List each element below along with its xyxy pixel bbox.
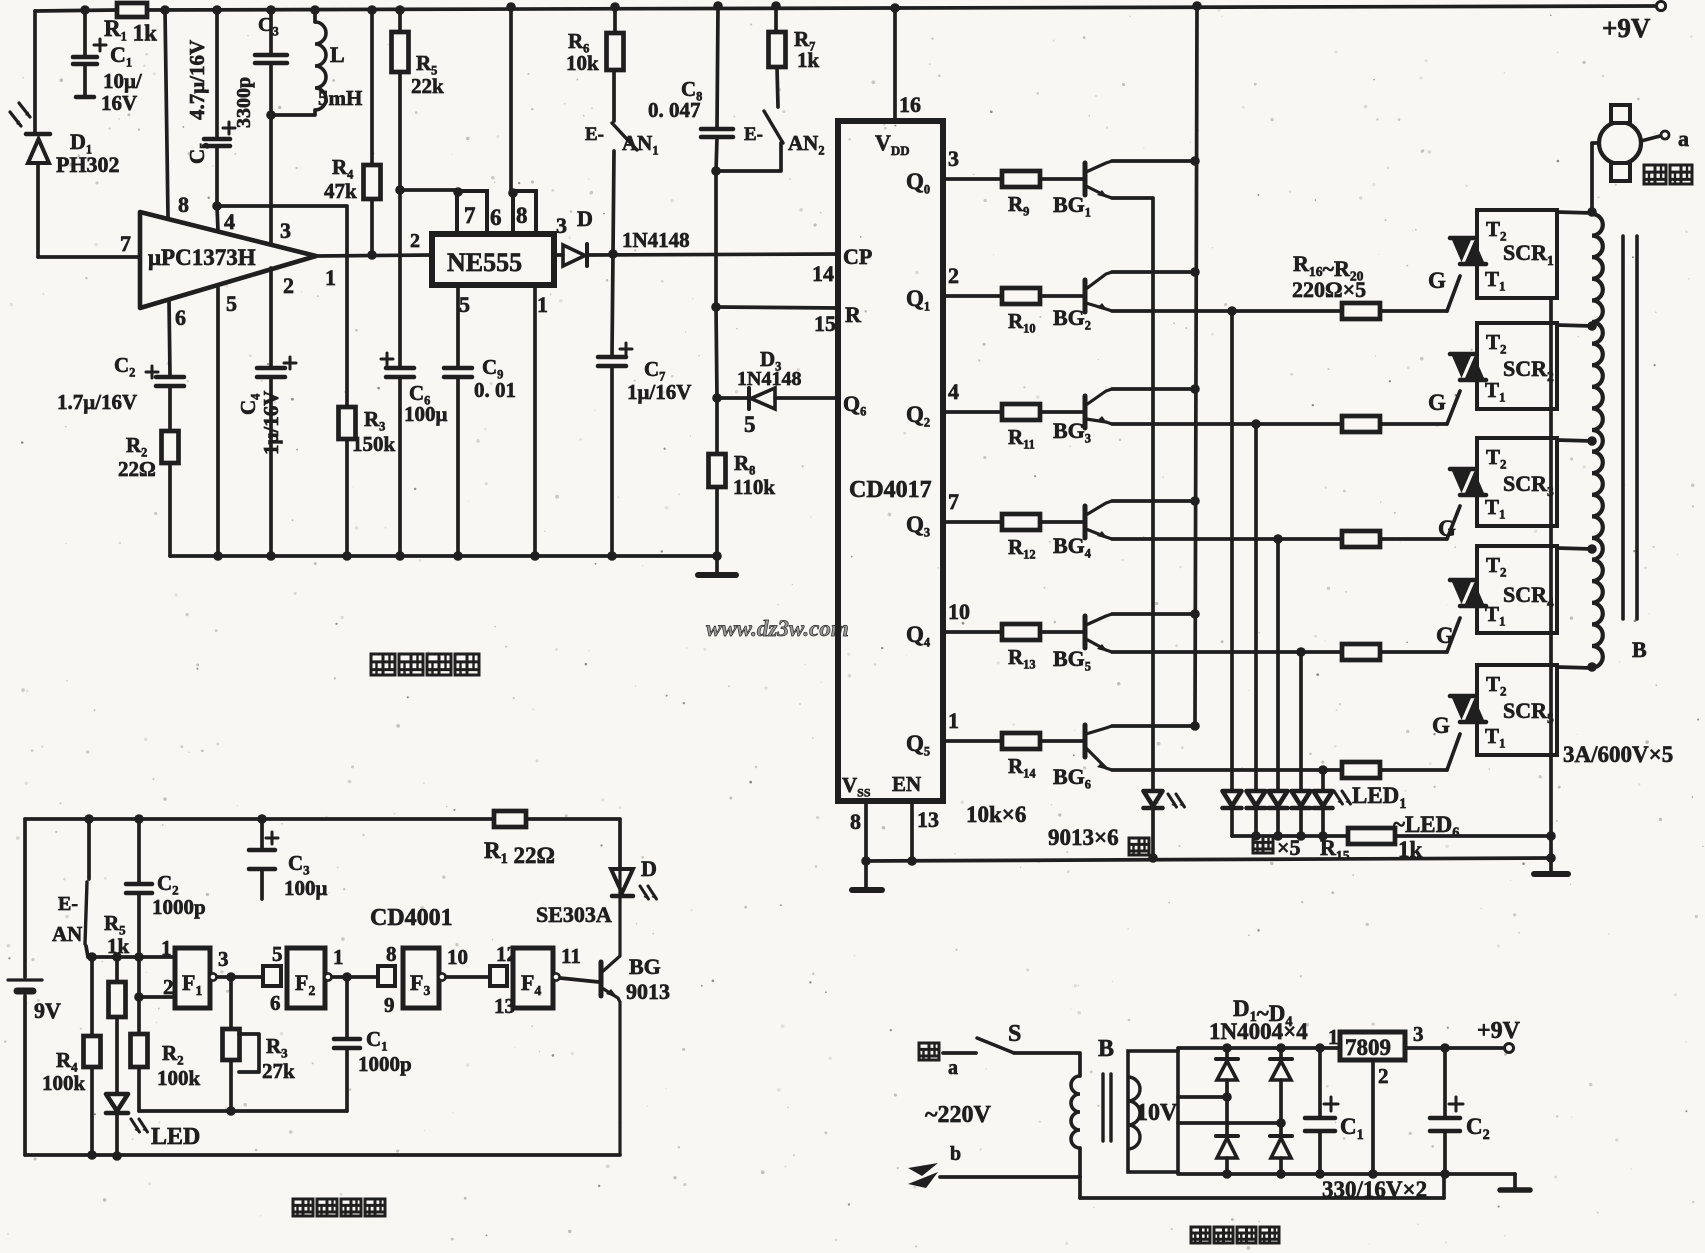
wire BG4 collector (1112, 499, 1195, 503)
label LED (tx) (151, 1124, 200, 1150)
resistor R4tx (100k) (84, 1036, 101, 1067)
inductor L (5mH) (271, 10, 326, 115)
label F3 (410, 970, 430, 998)
svg-text:2: 2 (1378, 1064, 1389, 1088)
wire tap SCR2 (1557, 325, 1592, 326)
svg-text:B: B (1632, 637, 1647, 662)
svg-text:15: 15 (814, 311, 836, 336)
svg-text:8: 8 (386, 942, 397, 966)
pin label 2 (7809) (1378, 1064, 1389, 1088)
svg-text:1k: 1k (1398, 837, 1423, 862)
resistor R17 (220ohm) (1342, 416, 1380, 432)
label G (SCR4) (1436, 623, 1454, 648)
led LED red 2 (1247, 791, 1266, 836)
wire CD4017 pin13 stub (910, 801, 914, 861)
junction LED drop 4 (1296, 647, 1306, 657)
junction tx bus C2 (134, 952, 144, 962)
svg-text:16: 16 (899, 92, 921, 117)
ground (receiver) (698, 556, 736, 575)
pin label 1 (7809) (1328, 1025, 1339, 1049)
label 1k (R15) (1398, 837, 1423, 862)
svg-text:G: G (1438, 516, 1456, 541)
photodiode D1 (26, 134, 50, 257)
svg-text:100μ: 100μ (284, 876, 328, 900)
pin label 6 (F2) (270, 991, 281, 1015)
svg-text:www.dz3w.com: www.dz3w.com (706, 616, 849, 641)
wire gate diagonal SCR4 (1447, 618, 1460, 652)
label 10k (566, 51, 599, 75)
label R8 (734, 451, 755, 477)
ground (logic) (852, 861, 882, 890)
wire primary to ground line (1078, 1177, 1082, 1198)
junction collector bus BG6 (1190, 721, 1200, 731)
svg-text:10: 10 (447, 945, 468, 969)
wire reset net down to D3 node (716, 307, 717, 398)
svg-text:7: 7 (120, 231, 131, 256)
junction R5-555 (395, 185, 405, 195)
svg-text:SCR1: SCR1 (1503, 240, 1554, 268)
wire gate diagonal SCR1 (1447, 276, 1460, 311)
capacitor C8 (0.047) (701, 129, 733, 137)
label F4 (521, 970, 541, 998)
junction rail-pin16 (890, 3, 900, 13)
rays green led (1168, 794, 1184, 807)
label 1N4148 (D) (622, 228, 690, 252)
pin label 8 (F3) (386, 942, 397, 966)
node +9V out terminal (1505, 1044, 1514, 1053)
label 10V (1136, 1100, 1178, 1126)
wire to NE555 pin7 (400, 188, 457, 192)
wire tx bus (88, 955, 175, 959)
wire T1 chain (1549, 298, 1553, 858)
label Q4 (906, 622, 930, 649)
junction R3-feedback (226, 1106, 236, 1116)
label C1 (110, 42, 132, 69)
label a (ps) (948, 1057, 958, 1079)
svg-text:100μ: 100μ (404, 402, 448, 426)
label T2 (SCR4) (1486, 553, 1507, 580)
wire live stub (943, 1051, 976, 1055)
ic U2 NE555 (432, 234, 554, 285)
pin label 8 (555) (516, 203, 528, 228)
wire BG2 collector (1112, 270, 1195, 274)
wire LED drop 1 (1230, 311, 1234, 791)
node fan terminal a (1661, 131, 1669, 139)
svg-text:E-: E- (744, 124, 763, 145)
wire Q2 to R11 (943, 410, 1002, 414)
junction C2 (ps) (1440, 1043, 1450, 1053)
pin label 6 (175, 305, 186, 330)
label Q5 (906, 731, 930, 758)
junction rail-collector bus (1192, 1, 1202, 11)
pin label 14 (812, 261, 834, 286)
label Q0 (906, 169, 930, 196)
svg-text:8: 8 (178, 192, 189, 217)
wire C1 branch (83, 10, 87, 95)
label 9013 x6 (1048, 825, 1119, 850)
junction winding taps (1587, 207, 1597, 672)
diode D1 (bridge) (1216, 1048, 1238, 1097)
wire b line (940, 1175, 1080, 1179)
wire F1 to F2 (217, 975, 263, 979)
label BG (tx) (629, 954, 661, 979)
label SCR5 (1503, 698, 1554, 726)
resistor R15 (1k) (1348, 828, 1395, 844)
pin label 15 (814, 311, 836, 336)
label +9V (1602, 13, 1651, 43)
label 100u (tx C3) (284, 876, 328, 900)
label C1 (ps) (1340, 1114, 1364, 1143)
junction D3 node (712, 393, 722, 403)
label 5mH (318, 86, 362, 110)
wire F4 to BG base (560, 978, 599, 982)
resistor R12 (10k) (1002, 514, 1040, 530)
label D (577, 206, 593, 231)
resistor R9 (10k) (1002, 171, 1040, 187)
wire Q1 to R10 (943, 294, 1002, 298)
svg-text:+9V: +9V (1477, 1018, 1521, 1044)
gate F4 input stub (490, 966, 507, 986)
svg-text:LED1: LED1 (1352, 783, 1406, 812)
wire left drop to D1 (33, 11, 37, 133)
scr SCR1 symbol (1450, 238, 1486, 264)
pin label 2 (283, 273, 294, 298)
junction R4 top (87, 952, 97, 962)
label R16~R20 (1293, 251, 1364, 284)
label R3 (364, 407, 385, 433)
junction tx bus R5 (112, 952, 122, 962)
junction C2-pin2 (134, 992, 144, 1002)
junction C2 rail (tx) (134, 814, 144, 824)
label D3 (760, 347, 781, 373)
wire BG6 collector (1112, 724, 1195, 728)
capacitor C1 (ps) (1305, 1048, 1335, 1174)
label Q1 (906, 286, 930, 313)
diode D3 (bridge) (1216, 1097, 1238, 1174)
svg-text:SE303A: SE303A (536, 902, 612, 927)
wire R5 (tx) line (115, 957, 119, 1094)
svg-text:×5: ×5 (1277, 835, 1301, 860)
junction bridge left tap (1222, 1092, 1232, 1102)
switch AN2 (744, 111, 825, 157)
label ceiling fan (diao shan) (1644, 165, 1692, 184)
wire C3/pin3 line (269, 10, 273, 244)
label C7 (644, 357, 665, 383)
gate F2 (287, 948, 325, 1008)
label C7 plus (620, 343, 632, 355)
wire LED drop 2 (1254, 424, 1258, 791)
svg-text:1N4148: 1N4148 (737, 368, 801, 390)
wire tap SCR5 (1557, 667, 1592, 668)
label T1 (SCR1) (1485, 267, 1506, 294)
label C9 (482, 355, 503, 381)
pin label 7 (555) (464, 203, 476, 228)
svg-text:7809: 7809 (1345, 1035, 1391, 1060)
led LED red 3 (1269, 791, 1288, 836)
wire R7 line from rail (776, 6, 778, 107)
capacitor C7 (1u/16V) (598, 357, 626, 366)
wire C2 (tx) line (137, 819, 141, 1111)
led LED (tx) (106, 1094, 128, 1156)
junction C1 top (tx) (342, 972, 352, 982)
resistor R6 (10k) (607, 33, 624, 70)
svg-text:LED: LED (151, 1124, 200, 1150)
pin label 4 (224, 209, 235, 234)
wire Q5 to R14 (943, 739, 1002, 743)
label R1 1k (104, 16, 157, 45)
diode D (1N4148) at 555 out (554, 244, 838, 266)
svg-text:5: 5 (272, 942, 283, 966)
svg-text:11: 11 (561, 944, 581, 968)
label Q2 (906, 402, 930, 429)
label R2 (tx) (162, 1041, 184, 1068)
label 1000p (tx C2) (152, 895, 206, 919)
label 1000p (tx C1) (358, 1052, 412, 1076)
label BG6 (1053, 764, 1091, 791)
svg-text:CD4001: CD4001 (370, 905, 453, 931)
wire reset net to pin15 (714, 171, 718, 307)
resistor R16 (220ohm) (1342, 303, 1380, 319)
resistor R1 (1k) in rail (117, 3, 147, 17)
wire Q3 to R12 (943, 520, 1002, 524)
scr SCR2 box (1477, 323, 1557, 409)
label VSS (842, 773, 871, 800)
pin label 3 (7809) (1413, 1022, 1424, 1046)
svg-text:9V: 9V (34, 998, 61, 1023)
junction R15-T1chain (1546, 831, 1556, 841)
junction 555 pin7 (453, 187, 463, 197)
label D (tx) (641, 856, 657, 881)
gate F3 out bubble (438, 973, 445, 980)
label S (1008, 1021, 1021, 1047)
label 10u/16V (101, 69, 143, 115)
svg-text:EN: EN (892, 772, 921, 796)
rays tx D (640, 886, 656, 899)
wire core lines B (1623, 236, 1637, 619)
svg-text:4: 4 (948, 379, 959, 404)
label R7 (794, 27, 815, 53)
wire bottom ground bus (866, 858, 1551, 861)
transistor Q BG3 (1085, 389, 1112, 428)
ic U3 CD4017 (838, 121, 943, 801)
svg-text:E-: E- (58, 893, 78, 915)
label C2 plus (146, 366, 158, 378)
junction reset-pin15 (711, 302, 721, 312)
label R11 (1008, 425, 1035, 451)
pin label 3 (280, 218, 291, 243)
capacitor C1 (10u/16V) (73, 57, 97, 97)
pin label 12 (F4) (496, 942, 517, 966)
led LED red 5 (1314, 791, 1333, 836)
label T2 (SCR2) (1486, 330, 1507, 357)
wire BG1 collector (1112, 159, 1195, 163)
svg-text:9: 9 (384, 993, 395, 1017)
wire C1 (tx) line (345, 977, 349, 1111)
junction rail-pin8 (160, 5, 170, 15)
label 22ohm (118, 457, 156, 481)
svg-text:6: 6 (175, 305, 186, 330)
ground (T1 chain) (1534, 858, 1568, 874)
capacitor C3tx (100u) (249, 850, 275, 869)
label G (SCR2) (1428, 390, 1446, 415)
pin label 5 (555) (459, 292, 470, 317)
wire F3 to F4 (446, 975, 490, 979)
wire amp pin6 drop (169, 300, 170, 375)
svg-text:~220V: ~220V (925, 1102, 991, 1128)
resistor R4 (47k) (364, 165, 381, 199)
gate F3 (403, 948, 439, 1008)
label C1 (tx) (366, 1027, 388, 1054)
label 4.7u/16V (185, 40, 209, 120)
pin label 6 (555) (490, 205, 502, 230)
label R10 (1008, 309, 1036, 335)
label VDD (875, 130, 910, 158)
pin label 2 (555) (410, 230, 420, 252)
wire red led bus to R15 (1232, 834, 1348, 838)
svg-text:16V: 16V (101, 91, 137, 115)
label R9 (1008, 192, 1029, 218)
gate F1 out bubble (209, 973, 216, 980)
label R (pin15) (845, 302, 862, 327)
svg-text:1: 1 (537, 292, 548, 317)
svg-text:D: D (577, 206, 593, 231)
switch S (977, 1038, 1014, 1053)
svg-text:R1 1k: R1 1k (104, 16, 157, 45)
junction rail-L (310, 5, 320, 15)
transistor Q BG5 (1085, 614, 1112, 652)
wire AN(tx) top (87, 819, 91, 879)
transistor Q BG1 (1085, 161, 1112, 198)
wire BG6 emitter row (1112, 768, 1447, 772)
svg-text:L: L (330, 42, 345, 67)
ic 7809 (1340, 1032, 1405, 1060)
transistor BG 9013 (tx) (601, 868, 620, 1155)
wire tap SCR4 (1557, 548, 1592, 549)
pin label 13 (F4) (494, 994, 515, 1018)
junction rail-C5 (212, 5, 222, 15)
svg-text:3: 3 (1413, 1022, 1424, 1046)
label 1k (tx R5) (107, 934, 130, 958)
resistor R8 (110k) (709, 454, 726, 487)
wire 330 box right edge (1442, 1174, 1446, 1198)
wire R3 (tx) line (229, 977, 233, 1111)
label PH302 (56, 152, 120, 177)
label L (330, 42, 345, 67)
wire BG5 collector (1112, 612, 1195, 616)
pin label 10 (F3) (447, 945, 468, 969)
resistor R3 (150k) (339, 407, 356, 439)
svg-text:8: 8 (516, 203, 528, 228)
label BG2 (1053, 305, 1091, 332)
junction pin8-bus (861, 856, 871, 866)
diode D2 (bridge) (1270, 1048, 1292, 1123)
pin label 1 (F2) (333, 945, 344, 969)
svg-text:E-: E- (585, 124, 604, 145)
svg-text:3300p: 3300p (233, 77, 255, 128)
junction T1-ground bus (1546, 853, 1556, 863)
led LED red 4 (1292, 791, 1311, 836)
label transmit circuit (fa she dian lu) (293, 1199, 385, 1216)
wire LED drop 5 (1321, 770, 1325, 791)
wire CD4017 pin8 stub (864, 801, 868, 861)
junction collector bus BG3 (1190, 384, 1200, 394)
junction collector bus BG1 (1190, 156, 1200, 166)
svg-text:4: 4 (224, 209, 235, 234)
wire C8 line from rail (716, 6, 718, 171)
svg-text:SCR2: SCR2 (1503, 356, 1554, 384)
label b (ps) (950, 1143, 961, 1165)
wire pin4 to R3 branch (217, 206, 347, 407)
label red x5 (hong) (1253, 835, 1301, 860)
capacitor C1tx (1000p) (334, 1039, 360, 1048)
label R13 (1008, 645, 1036, 671)
diode D SE303A (tx) (611, 869, 633, 896)
svg-text:3: 3 (280, 218, 291, 243)
wire tx feedback (139, 1109, 347, 1113)
wire R4 (tx) line (90, 957, 94, 1155)
svg-text:SCR5: SCR5 (1503, 698, 1554, 726)
pin label 11 (F4) (561, 944, 581, 968)
label C4 (236, 394, 262, 415)
svg-text:22k: 22k (411, 74, 444, 98)
svg-text:2: 2 (163, 975, 174, 999)
svg-text:1k: 1k (107, 934, 130, 958)
label F1 (182, 970, 202, 998)
svg-text:220Ω×5: 220Ω×5 (1292, 277, 1366, 302)
svg-text:μPC1373H: μPC1373H (148, 245, 256, 270)
label SCR2 (1503, 356, 1554, 384)
wire C7 drop (612, 254, 613, 556)
wire 555 pin5 drop (456, 285, 460, 556)
junction bridge right tap (1276, 1118, 1286, 1128)
junction rail-C3 (266, 5, 276, 15)
label C4 plus (284, 357, 296, 369)
pin label 3 (948, 146, 959, 171)
svg-text:10k×6: 10k×6 (966, 802, 1026, 827)
wire bridge bottom (1178, 1172, 1515, 1174)
label CD4017 (849, 477, 932, 503)
wire BG3 emitter row (1112, 422, 1447, 426)
label Q6 (843, 391, 866, 418)
wire CD4017 pin16 from rail (893, 8, 897, 121)
wire tap SCR1 (1557, 212, 1592, 213)
gate F3 input stub (378, 966, 395, 986)
gate F4 out bubble (552, 973, 559, 980)
label C8 (681, 77, 702, 103)
label R5 (416, 51, 437, 77)
wire amp pin8 from rail (165, 10, 168, 217)
capacitor C9 (0.01) (444, 368, 472, 377)
junction collector bus BG4 (1190, 496, 1200, 506)
capacitor C3 (3300p) (255, 55, 287, 63)
label C2 (tx) (157, 871, 179, 898)
label 3A/600V x5 (1563, 742, 1673, 767)
svg-text:1: 1 (161, 936, 172, 960)
wire amp pin5 drop (216, 288, 220, 556)
svg-text:8: 8 (850, 809, 861, 834)
motor fan (1599, 105, 1641, 181)
svg-text:1N4004×4: 1N4004×4 (1209, 1019, 1308, 1044)
svg-text:2: 2 (410, 230, 420, 252)
wire Q4 to R13 (943, 630, 1002, 634)
label B (1632, 637, 1647, 662)
label 0.047 (648, 98, 701, 122)
wire R11 to BG3 base (1040, 410, 1083, 414)
wire R9 to BG1 base (1040, 177, 1083, 181)
wire R4 line (370, 10, 374, 255)
pin label 1 (F1) (161, 936, 172, 960)
svg-text:4.7μ/16V: 4.7μ/16V (185, 40, 209, 120)
